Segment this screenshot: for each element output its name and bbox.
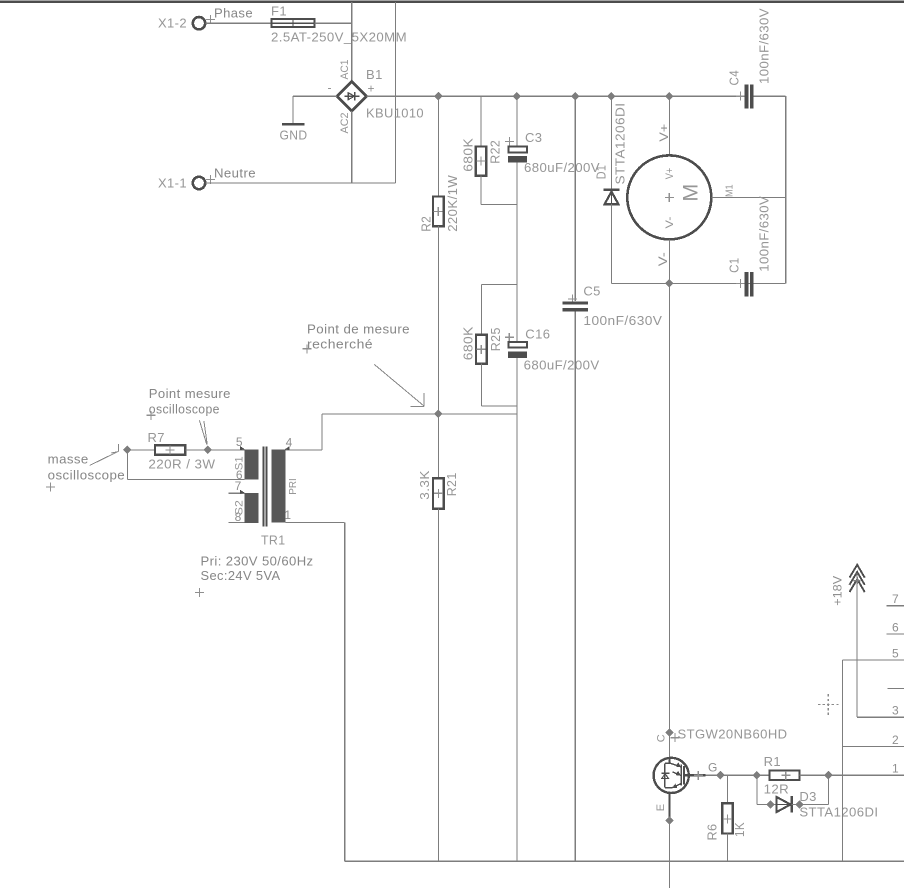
node bus/C3 junction [513,92,522,101]
wire R25 top link [481,283,517,285]
svg-text:Neutre: Neutre [214,165,256,180]
transformer TR1 [195,435,314,597]
fuse F1 2.5AT-250V_5X20MM [271,4,407,45]
annotation masse oscilloscope [46,444,125,491]
wire gate stub [685,774,706,776]
svg-text:Pri: 230V 50/60Hz: Pri: 230V 50/60Hz [201,553,314,568]
svg-text:2: 2 [892,733,899,747]
node bus/R2 junction [434,92,443,101]
svg-text:12R: 12R [764,782,790,797]
node collector junction [665,728,674,737]
node R1/D3 right junction [824,771,833,780]
svg-text:S1: S1 [234,456,246,470]
svg-text:3: 3 [892,704,899,718]
svg-text:3.3K: 3.3K [417,470,432,500]
svg-text:4: 4 [286,435,293,449]
wire masse down and right to TR1 pin 6 [126,450,128,480]
wire bus down to C3 [516,96,518,146]
wire D3 loop left side [756,775,758,804]
wire bus down to motor V+ [668,96,670,155]
svg-text:R6: R6 [705,824,720,841]
svg-text:220R / 3W: 220R / 3W [148,456,215,471]
svg-text:Point mesure: Point mesure [149,386,231,401]
wire bridge minus to GND [293,95,337,97]
svg-text:220K/1W: 220K/1W [445,174,460,231]
svg-text:V-: V- [664,216,676,228]
IC box top edge / pin 5 [842,659,904,661]
terminal X1-2 (Phase) [158,6,253,31]
svg-text:R22: R22 [488,140,503,164]
svg-text:recherché: recherché [307,336,373,351]
node point mesure junction [203,446,212,455]
svg-text:5: 5 [236,435,243,449]
svg-text:100nF/630V: 100nF/630V [757,196,772,272]
svg-text:AC2: AC2 [339,113,351,134]
wire R25 bottom link [480,364,482,406]
wire vertical into bridge AC1 [351,2,353,82]
resistor R6 1K [705,803,748,840]
pin 3 wire from +18V [857,716,904,718]
svg-text:R1: R1 [764,754,781,769]
svg-text:6: 6 [892,620,899,634]
wire measure line corner down to TR1 pin 4 [321,414,323,450]
wire DC+ bus [367,95,745,97]
svg-text:5: 5 [892,647,899,661]
resistor R21 3.3K [417,470,459,508]
wire vertical top to Neutre [394,2,396,183]
resistor R7 220R / 3W [148,430,216,472]
wire masse to R7 [127,449,155,451]
bridge rectifier B1 KBU1010 [328,60,425,134]
terminal X1-1 (Neutre) [158,165,256,190]
svg-text:PRI: PRI [288,478,299,495]
wire C4 right and down right column [754,95,786,97]
wire C16 down to measure line [516,358,518,414]
pin 6 stub [886,633,904,635]
node V- junction [665,279,674,288]
wire R6 down to rail [726,834,728,862]
svg-text:R21: R21 [444,472,459,496]
svg-text:STGW20NB60HD: STGW20NB60HD [678,727,788,742]
annotation Point mesure oscilloscope [147,386,231,445]
svg-text:X1-2: X1-2 [158,16,187,31]
svg-text:oscilloscope: oscilloscope [48,467,125,482]
svg-text:M: M [679,184,703,202]
wire node to TR1 pin 5 [208,449,245,451]
svg-text:C5: C5 [583,284,600,299]
wire V- node down to IGBT collector [669,283,671,758]
wire neutral [206,182,396,184]
wire bridge AC2 down to neutral wire [351,111,353,183]
power +18V arrow [830,565,864,606]
frame reference cross [818,694,839,715]
svg-text:1: 1 [284,508,291,522]
wire fuse to vertical [315,22,352,24]
svg-text:AC1: AC1 [339,60,351,80]
svg-text:S2: S2 [234,500,246,515]
transistor Q1 IGBT [654,758,689,821]
wire C16 branch down to rail [516,414,518,861]
svg-text:Point de mesure: Point de mesure [307,321,410,336]
svg-text:1K: 1K [732,822,747,837]
svg-text:masse: masse [48,451,89,466]
svg-text:X1-1: X1-1 [158,175,187,190]
svg-text:-: - [328,81,332,95]
wire R7 to point mesure node [185,449,207,451]
resistor R25 680K [460,326,502,364]
annotation Point de mesure recherche [303,321,425,406]
capacitor C3 680uF/200V [505,130,600,175]
svg-text:TR1: TR1 [261,532,286,547]
svg-text:D1: D1 [593,165,608,180]
diode D1 STTA1206DI [593,103,627,205]
wire C1 right side [754,282,786,284]
svg-text:R2: R2 [418,216,433,232]
svg-text:680K: 680K [460,326,475,360]
wire gate T down to R6 [726,775,728,803]
wire TR1 pin 8 stub [229,522,245,524]
capacitor C4 100nF/630V [727,8,772,109]
svg-text:E: E [655,804,667,811]
svg-text:F1: F1 [271,4,287,19]
capacitor C16 680uF/200V [505,326,600,372]
svg-text:+18V: +18V [830,576,844,606]
node emitter junction [665,816,674,825]
node bus/D1 junction [607,92,616,101]
node measure point junction [434,410,443,419]
wire motor V- down [668,239,670,283]
resistor R22 680K [460,138,502,176]
ground GND [280,124,308,142]
capacitor C5 100nF/630V [563,284,663,328]
svg-text:STTA1206DI: STTA1206DI [612,103,627,185]
svg-text:C1: C1 [727,257,742,273]
wire gate to R1 [706,774,770,776]
node gate junction [716,771,725,780]
wire C5 down to bottom rail [574,311,576,861]
svg-text:C16: C16 [525,326,550,341]
wire D1 down and right to V- line [610,204,612,283]
svg-text:C4: C4 [727,70,742,86]
wire emitter down to bottom [669,821,671,888]
wire R22 bottom link to C3 branch [480,176,482,205]
wire R1 right to IC pin 1 [800,774,904,776]
svg-text:V-: V- [656,252,670,266]
svg-text:R7: R7 [148,430,165,445]
wire bottom rail [345,860,904,862]
pin 4 stub [888,687,904,689]
svg-text:Sec:24V 5VA: Sec:24V 5VA [201,568,281,583]
wire bus down to C5 [574,96,576,301]
node D3 cathode junction [795,800,804,809]
svg-text:Phase: Phase [214,6,253,21]
node bus/C5 junction [571,92,580,101]
wire R2 down to measure node [437,226,439,414]
wire bus down to R22 [480,96,482,146]
svg-text:7: 7 [235,479,242,493]
wire motor M terminal to right column [711,196,785,198]
svg-text:V+: V+ [664,168,676,180]
node masse junction [123,446,132,455]
motor M1 [627,155,735,239]
node R1 left junction [753,771,762,780]
svg-text:100nF/630V: 100nF/630V [757,8,772,84]
svg-text:V+: V+ [657,124,671,142]
wire D3 cathode up to R1 output [792,804,829,806]
resistor R1 12R [764,754,800,797]
wire +18V down to pin 3 line [856,573,858,717]
wire TR1 pin 7 stub [229,492,245,494]
node bus/motor junction [665,92,674,101]
wire measure line [322,413,517,415]
svg-text:STTA1206DI: STTA1206DI [799,805,878,820]
svg-text:C3: C3 [525,130,542,145]
svg-text:7: 7 [892,592,899,606]
wire R21 measure node down [437,414,439,479]
pin 7 stub [886,605,904,607]
svg-text:D3: D3 [799,789,816,804]
resistor R2 220K/1W [418,174,460,231]
wire X1-2 to fuse [206,22,272,24]
svg-text:2.5AT-250V_5X20MM: 2.5AT-250V_5X20MM [271,30,407,45]
svg-text:G: G [708,761,717,775]
svg-text:B1: B1 [366,67,383,82]
wire bus down to D1 [610,96,612,190]
node D3 anode junction [766,800,775,809]
svg-text:+: + [368,82,375,96]
svg-text:oscilloscope: oscilloscope [149,401,220,416]
pin 2 stub [842,746,904,748]
sheet top border [0,1,904,3]
svg-text:GND: GND [280,128,308,143]
wire C3 down [516,163,518,342]
capacitor C1 100nF/630V [727,196,772,297]
svg-text:R25: R25 [488,327,503,351]
svg-text:M1: M1 [723,184,735,197]
wire bus down to R2 [437,96,439,196]
diode D3 STTA1206DI [776,789,878,820]
wire R21 down to bottom rail [437,509,439,862]
svg-text:1: 1 [892,762,899,776]
svg-text:KBU1010: KBU1010 [366,106,424,121]
svg-text:C: C [655,734,667,742]
svg-text:680uF/200V: 680uF/200V [524,357,600,372]
svg-text:680uF/200V: 680uF/200V [524,160,600,175]
svg-text:100nF/630V: 100nF/630V [583,313,662,328]
svg-text:680K: 680K [460,138,475,172]
IC box left edge [841,660,843,861]
wire TR1 pin 1 to corner and down [285,522,344,524]
